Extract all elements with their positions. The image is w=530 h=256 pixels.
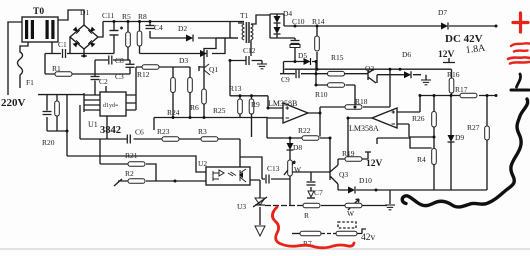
svg-text:R20: R20 xyxy=(42,138,55,147)
svg-text:R24: R24 xyxy=(167,108,180,117)
svg-text:R2: R2 xyxy=(125,169,134,178)
svg-text:R5: R5 xyxy=(122,12,131,21)
svg-text:R15: R15 xyxy=(331,53,344,62)
svg-text:D4: D4 xyxy=(283,9,292,18)
svg-text:R23: R23 xyxy=(157,127,170,136)
svg-text:R3: R3 xyxy=(198,127,207,136)
svg-text:C1: C1 xyxy=(58,40,67,49)
svg-text:F1: F1 xyxy=(26,78,34,87)
svg-text:C10: C10 xyxy=(292,17,305,26)
svg-text:R19: R19 xyxy=(342,149,355,158)
svg-text:D1: D1 xyxy=(80,8,89,17)
svg-text:D7: D7 xyxy=(438,8,447,17)
svg-text:R10: R10 xyxy=(315,90,328,99)
svg-text:R1: R1 xyxy=(52,64,61,73)
svg-text:R21: R21 xyxy=(125,151,138,160)
svg-text:R4: R4 xyxy=(417,155,426,164)
svg-text:D10: D10 xyxy=(359,176,372,185)
svg-text:D3: D3 xyxy=(179,56,188,65)
svg-text:C8: C8 xyxy=(115,56,124,65)
svg-text:12V: 12V xyxy=(366,159,383,169)
svg-text:D2: D2 xyxy=(178,24,187,33)
svg-text:W: W xyxy=(347,209,355,218)
svg-text:R13: R13 xyxy=(229,84,242,93)
svg-text:C11: C11 xyxy=(102,11,114,20)
svg-text:D9: D9 xyxy=(455,133,464,142)
svg-text:d1yd≡: d1yd≡ xyxy=(103,103,119,109)
svg-text:D6: D6 xyxy=(402,50,411,59)
svg-text:220V: 220V xyxy=(1,97,26,109)
svg-text:R17: R17 xyxy=(455,85,468,94)
svg-text:U3: U3 xyxy=(237,202,246,211)
svg-text:C6: C6 xyxy=(135,128,144,137)
svg-text:R27: R27 xyxy=(467,123,480,132)
svg-text:U1: U1 xyxy=(88,120,98,129)
svg-text:Q1: Q1 xyxy=(209,65,218,74)
svg-text:T1: T1 xyxy=(240,11,249,20)
svg-text:R12: R12 xyxy=(137,70,150,79)
svg-text:R6: R6 xyxy=(190,103,199,112)
svg-text:W: W xyxy=(294,165,302,174)
svg-text:3842: 3842 xyxy=(100,125,121,136)
svg-text:C7: C7 xyxy=(314,188,323,197)
svg-text:R9: R9 xyxy=(251,100,260,109)
svg-text:Q3: Q3 xyxy=(339,170,348,179)
svg-text:LM358B: LM358B xyxy=(268,99,297,108)
svg-text:Q2: Q2 xyxy=(365,64,374,73)
svg-text:LM358A: LM358A xyxy=(349,124,379,133)
svg-text:D5: D5 xyxy=(298,51,307,60)
svg-text:R25: R25 xyxy=(213,106,226,115)
svg-text:42v: 42v xyxy=(361,233,376,243)
svg-text:R18: R18 xyxy=(355,97,368,106)
svg-text:C4: C4 xyxy=(154,23,163,32)
svg-text:C13: C13 xyxy=(267,164,280,173)
svg-text:T0: T0 xyxy=(33,7,44,17)
svg-text:C3: C3 xyxy=(115,72,124,81)
svg-text:R26: R26 xyxy=(412,114,425,123)
svg-text:R: R xyxy=(304,211,309,220)
svg-text:C9: C9 xyxy=(281,75,290,84)
svg-text:C2: C2 xyxy=(99,77,108,86)
svg-text:R16: R16 xyxy=(447,70,460,79)
svg-text:R22: R22 xyxy=(298,126,311,135)
svg-text:12V: 12V xyxy=(438,50,455,60)
svg-text:R14: R14 xyxy=(312,17,325,26)
svg-text:R8: R8 xyxy=(138,12,147,21)
svg-text:D8: D8 xyxy=(293,143,302,152)
svg-text:1.8A: 1.8A xyxy=(465,43,487,56)
svg-text:U2: U2 xyxy=(198,159,207,168)
svg-text:C12: C12 xyxy=(243,46,256,55)
